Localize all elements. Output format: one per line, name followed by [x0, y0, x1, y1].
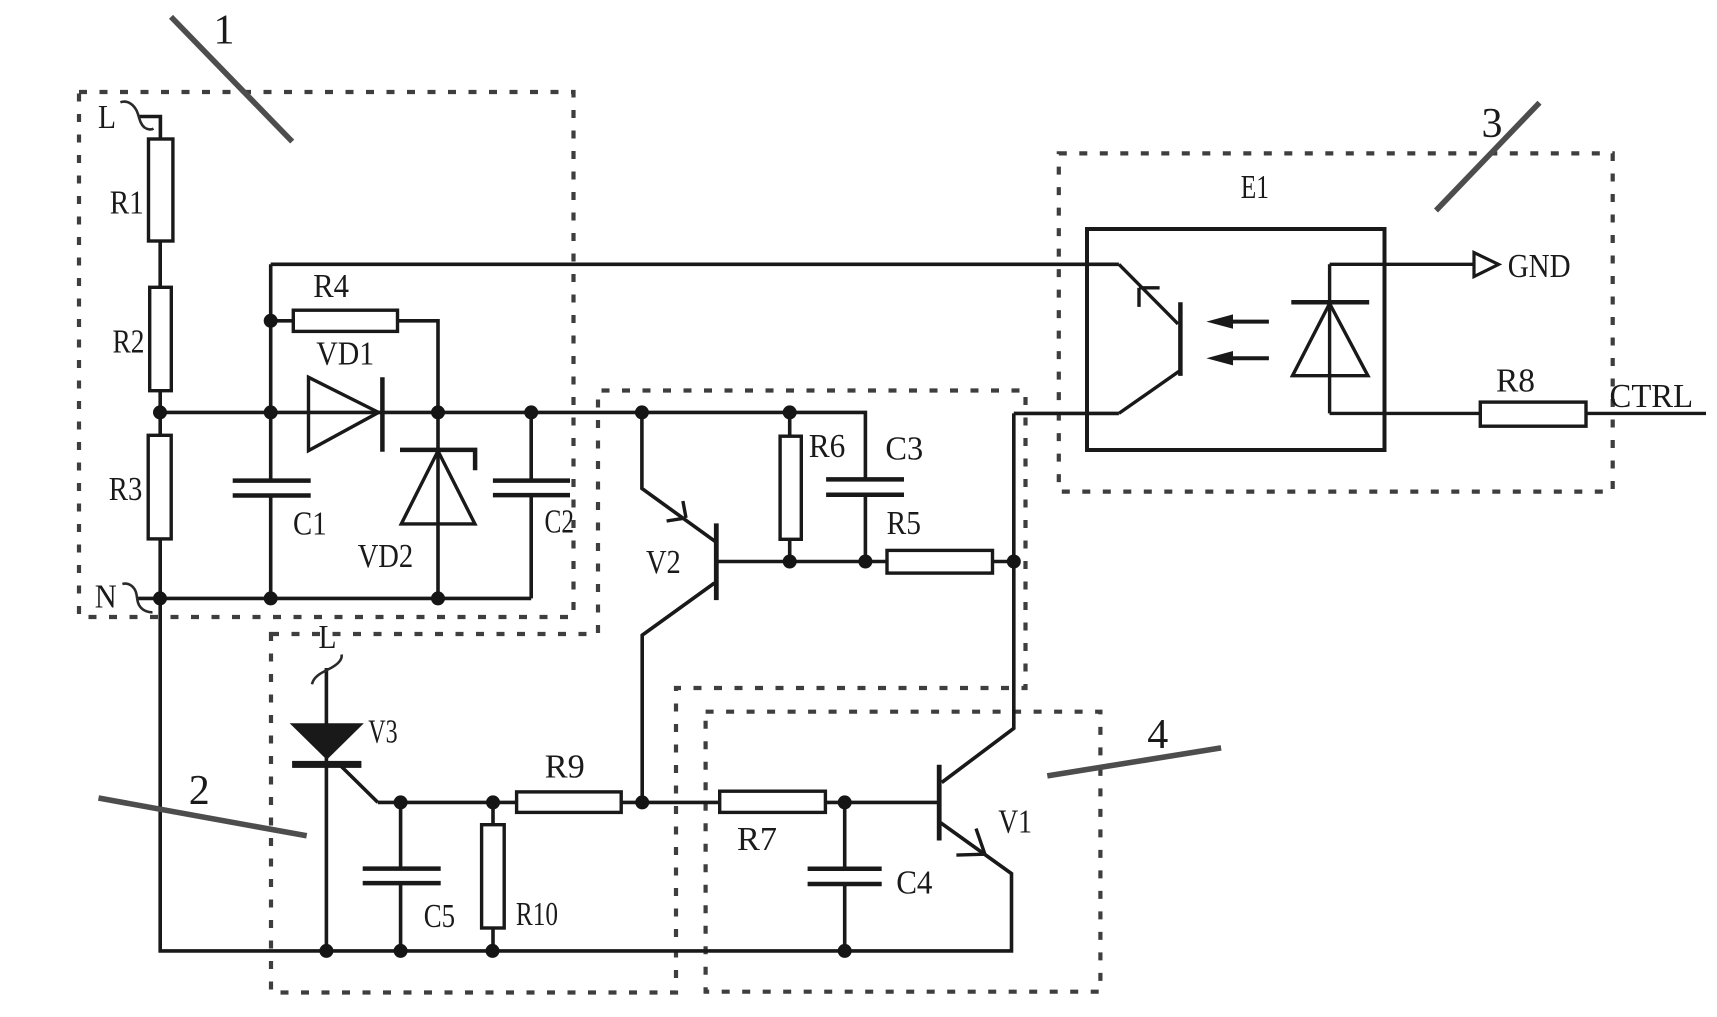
svg-text:VD1: VD1 — [316, 336, 374, 373]
svg-text:GND: GND — [1508, 248, 1571, 285]
svg-text:C1: C1 — [293, 506, 327, 543]
svg-text:3: 3 — [1482, 101, 1503, 147]
svg-text:V1: V1 — [998, 804, 1032, 841]
svg-text:E1: E1 — [1241, 169, 1269, 206]
svg-text:VD2: VD2 — [358, 538, 414, 575]
svg-text:V3: V3 — [368, 714, 397, 751]
svg-text:R3: R3 — [109, 471, 143, 508]
svg-text:R9: R9 — [545, 748, 585, 785]
svg-text:R2: R2 — [113, 323, 145, 360]
svg-text:L: L — [98, 99, 116, 136]
svg-text:2: 2 — [189, 768, 210, 814]
svg-text:CTRL: CTRL — [1610, 378, 1694, 415]
svg-text:1: 1 — [214, 8, 235, 54]
svg-text:N: N — [95, 579, 117, 616]
svg-text:C5: C5 — [424, 898, 455, 935]
svg-text:C3: C3 — [885, 431, 923, 468]
svg-text:C2: C2 — [545, 504, 575, 541]
svg-text:C4: C4 — [896, 864, 932, 901]
svg-text:V2: V2 — [646, 544, 681, 581]
svg-text:4: 4 — [1147, 712, 1168, 758]
svg-text:R10: R10 — [516, 896, 558, 933]
svg-text:R1: R1 — [110, 185, 144, 222]
svg-text:L: L — [319, 619, 337, 656]
svg-text:R4: R4 — [313, 268, 349, 305]
svg-text:R5: R5 — [887, 505, 921, 542]
svg-text:R7: R7 — [737, 821, 777, 858]
svg-text:R8: R8 — [1496, 363, 1535, 400]
svg-text:R6: R6 — [809, 428, 846, 465]
